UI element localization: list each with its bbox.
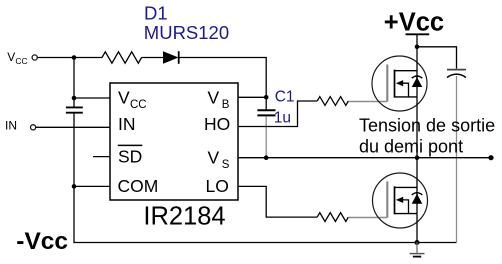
diode D1 bbox=[163, 51, 179, 64]
svg-text:IR2184: IR2184 bbox=[143, 203, 225, 231]
wire resistor to diode bbox=[142, 57, 163, 59]
svg-text:+Vcc: +Vcc bbox=[384, 8, 444, 36]
svg-text:S: S bbox=[222, 159, 230, 171]
wire junction to decoupling cap bbox=[73, 98, 75, 107]
node rail ground junction bbox=[415, 240, 420, 245]
svg-text:Tension de sortie: Tension de sortie bbox=[359, 115, 495, 135]
wire VB junction to C1 bbox=[265, 97, 267, 109]
wire Q1 drain bbox=[416, 47, 418, 84]
label Vcc input bbox=[7, 50, 27, 66]
wire gate lead upper gray bbox=[348, 101, 387, 103]
node VB junction bbox=[264, 95, 269, 100]
wire Q2 drain bbox=[416, 158, 418, 201]
svg-text:-Vcc: -Vcc bbox=[16, 228, 68, 255]
svg-text:CC: CC bbox=[15, 56, 27, 66]
wire Vcc vertical to pin row bbox=[73, 58, 75, 99]
svg-text:CC: CC bbox=[130, 99, 147, 111]
capacitor C1 bbox=[257, 110, 275, 115]
svg-text:SD: SD bbox=[118, 147, 142, 167]
wire cap to COM junction bbox=[73, 114, 75, 187]
svg-text:1u: 1u bbox=[274, 109, 291, 126]
svg-text:MURS120: MURS120 bbox=[144, 22, 229, 43]
transistor Q1 upper MOSFET bbox=[372, 56, 427, 111]
node half-bridge output junction bbox=[415, 155, 420, 160]
node Vcc pin junction bbox=[72, 96, 77, 101]
svg-text:IN: IN bbox=[5, 118, 17, 132]
resistor R bootstrap bbox=[102, 52, 142, 63]
wire +Vcc to right cap corner bbox=[417, 47, 457, 69]
wire COM to IC bbox=[74, 185, 110, 187]
svg-text:V: V bbox=[208, 147, 220, 167]
wire Vcc pin to IC bbox=[74, 97, 110, 99]
capacitor C right bbox=[447, 70, 466, 78]
wire C1 to VS junction gray bbox=[265, 116, 267, 157]
resistor R gate upper bbox=[317, 97, 348, 106]
wire COM junction down to -Vcc rail bbox=[74, 186, 457, 242]
op-amp U1 IR2184 box bbox=[110, 83, 238, 200]
wire Q1 source to VS line bbox=[416, 76, 418, 158]
wire IN to IC bbox=[36, 126, 110, 128]
transistor Q2 lower MOSFET bbox=[373, 173, 428, 228]
wire VS line bbox=[238, 157, 491, 159]
node output terminal dot bbox=[488, 155, 493, 160]
svg-text:V: V bbox=[118, 87, 130, 107]
ground bbox=[410, 243, 425, 257]
node COM junction bbox=[72, 184, 77, 189]
wire diode to VB corner bbox=[179, 58, 267, 98]
svg-text:V: V bbox=[7, 50, 15, 64]
wire Vcc terminal to junction bbox=[37, 57, 74, 59]
capacitor C decoupling bbox=[66, 107, 83, 112]
svg-text:LO: LO bbox=[206, 176, 229, 196]
wire right cap to rail gray bbox=[456, 76, 458, 243]
svg-text:COM: COM bbox=[118, 176, 159, 196]
node Vcc junction top bbox=[72, 55, 77, 60]
wire junction to resistor bbox=[74, 57, 102, 59]
wire LO pin route bbox=[238, 186, 317, 217]
wire VB pin to junction bbox=[238, 96, 266, 98]
wire HO pin riser bbox=[238, 101, 317, 127]
node +Vcc junction bbox=[415, 45, 420, 50]
terminal Vcc input bbox=[32, 55, 37, 60]
pin label VS bbox=[208, 147, 230, 171]
svg-text:B: B bbox=[222, 99, 230, 111]
wire Q2 source to rail bbox=[416, 193, 418, 243]
svg-text:D1: D1 bbox=[144, 2, 168, 23]
svg-text:IN: IN bbox=[118, 114, 136, 134]
node VS C1 junction bbox=[264, 155, 269, 160]
svg-text:HO: HO bbox=[204, 114, 230, 134]
wire gate lead lower gray bbox=[348, 217, 387, 219]
svg-text:du demi pont: du demi pont bbox=[359, 137, 463, 157]
svg-text:C1: C1 bbox=[275, 88, 295, 105]
svg-text:V: V bbox=[208, 87, 220, 107]
power bar +Vcc bbox=[406, 34, 430, 47]
pin label VCC bbox=[118, 87, 147, 111]
terminal IN input bbox=[30, 125, 35, 130]
pin label VB bbox=[208, 87, 230, 111]
resistor R gate lower bbox=[317, 213, 348, 222]
wire SD stub bbox=[93, 156, 110, 158]
pin label SD bbox=[118, 145, 143, 166]
